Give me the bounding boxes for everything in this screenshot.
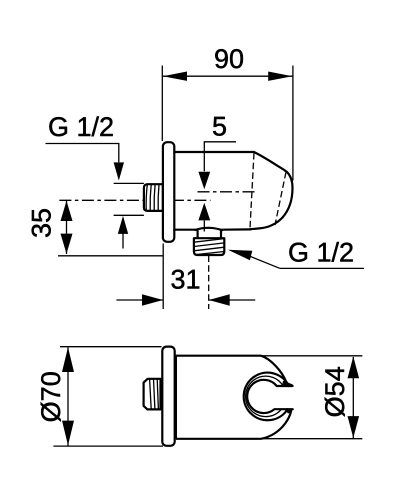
dimension 31: left arrowhead (points right) xyxy=(142,294,163,306)
wall pipe stub (front view) xyxy=(144,379,161,410)
thread diameter lower arrowhead xyxy=(118,216,128,234)
dimension 90: right extension line xyxy=(292,66,294,181)
pipe thread lines xyxy=(146,184,159,210)
nut boss bump on body bottom xyxy=(195,228,222,230)
dimension 31: dimension line left tail xyxy=(116,299,163,301)
svg-text:G 1/2: G 1/2 xyxy=(288,237,354,267)
svg-text:35: 35 xyxy=(27,208,57,238)
dimension O70: bottom extension line xyxy=(53,445,163,447)
leader arrowhead pointing at nut xyxy=(228,250,253,261)
holder ring: middle rim arc xyxy=(246,376,284,416)
dimension 90: right arrowhead xyxy=(268,72,292,81)
dimension O54: top extension line xyxy=(262,355,362,357)
dimension O54: bottom extension line xyxy=(262,438,362,440)
pipe centerline (dash-dot) xyxy=(59,199,210,201)
threaded pipe stub xyxy=(144,184,163,211)
wall flange xyxy=(163,142,174,242)
dimension 5: lower arrow stem xyxy=(203,221,205,232)
dimension 90: dimension line xyxy=(162,75,293,77)
dimension 35: bottom datum line xyxy=(58,255,163,257)
hidden edge: cup rim (dashed) xyxy=(275,172,286,225)
dimension 35: upper arrowhead xyxy=(61,201,73,221)
thread diameter lower arrow stem xyxy=(122,234,124,249)
dimension 35: lower arrowhead xyxy=(61,234,73,254)
body cylinder top edge xyxy=(174,151,254,153)
dimension 5: lower arrowhead xyxy=(198,203,210,221)
dimension 35: dimension line xyxy=(66,201,68,254)
knurled nut body xyxy=(194,238,224,255)
svg-text:G 1/2: G 1/2 xyxy=(48,112,114,142)
slot bottom cut edge extension xyxy=(287,408,293,410)
stub thread lines xyxy=(150,379,159,409)
dimension O54: lower arrowhead xyxy=(348,416,360,438)
dimension 31: dimension line right tail xyxy=(209,299,256,301)
holder ring: C annulus xyxy=(244,373,289,421)
knurl hatch lines xyxy=(194,239,224,255)
svg-text:Ø54: Ø54 xyxy=(320,366,350,417)
dimension O70: upper arrowhead xyxy=(62,347,74,372)
svg-text:31: 31 xyxy=(170,265,200,295)
dimension 31: right arrowhead (points left) xyxy=(209,294,230,306)
dimension O70: top extension line xyxy=(60,346,162,348)
dimension 5: leader xyxy=(204,142,236,171)
cup axis centerline (dash-dot) xyxy=(198,191,257,193)
holder ring: hole edge emphasis xyxy=(247,380,277,413)
knurled nut neck xyxy=(198,231,221,239)
leader arrowhead pointing at thread crest xyxy=(114,162,124,180)
leader underline for right G 1/2 xyxy=(280,267,364,269)
dimension 31: right extension line (dashed, nut centerline) xyxy=(208,256,210,310)
leader slant line to nut xyxy=(245,254,280,268)
svg-text:Ø70: Ø70 xyxy=(36,371,66,422)
hidden edge: cylinder/cup joint (dashed) xyxy=(250,153,254,228)
thread crest line top xyxy=(114,182,144,184)
dimension 31: left extension line xyxy=(162,244,164,310)
thread crest line bottom xyxy=(114,214,144,216)
svg-text:90: 90 xyxy=(214,44,244,74)
dimension 5: upper arrowhead xyxy=(198,172,210,190)
dimension O54: dimension line xyxy=(352,357,354,438)
svg-text:5: 5 xyxy=(212,112,227,142)
dimension O70: dimension line xyxy=(67,348,69,446)
body cylinder bottom edge (left of nut) xyxy=(174,229,195,231)
holder cup outline (side view) xyxy=(251,152,293,229)
dimension O54: upper arrowhead xyxy=(348,357,360,379)
dimension 90: left arrowhead xyxy=(163,72,187,81)
dimension 90: left extension line xyxy=(161,66,163,142)
front flange xyxy=(162,347,174,446)
leader for top G 1/2 xyxy=(46,144,119,163)
body cylinder bottom edge (right of nut) xyxy=(222,228,250,231)
slot top cut edge extension xyxy=(288,385,293,387)
bottom arm tip wedge xyxy=(286,409,292,413)
top arm tip wedge xyxy=(282,381,293,386)
dimension O70: lower arrowhead xyxy=(62,421,74,446)
body (front view) with slot gap on right xyxy=(176,356,291,439)
